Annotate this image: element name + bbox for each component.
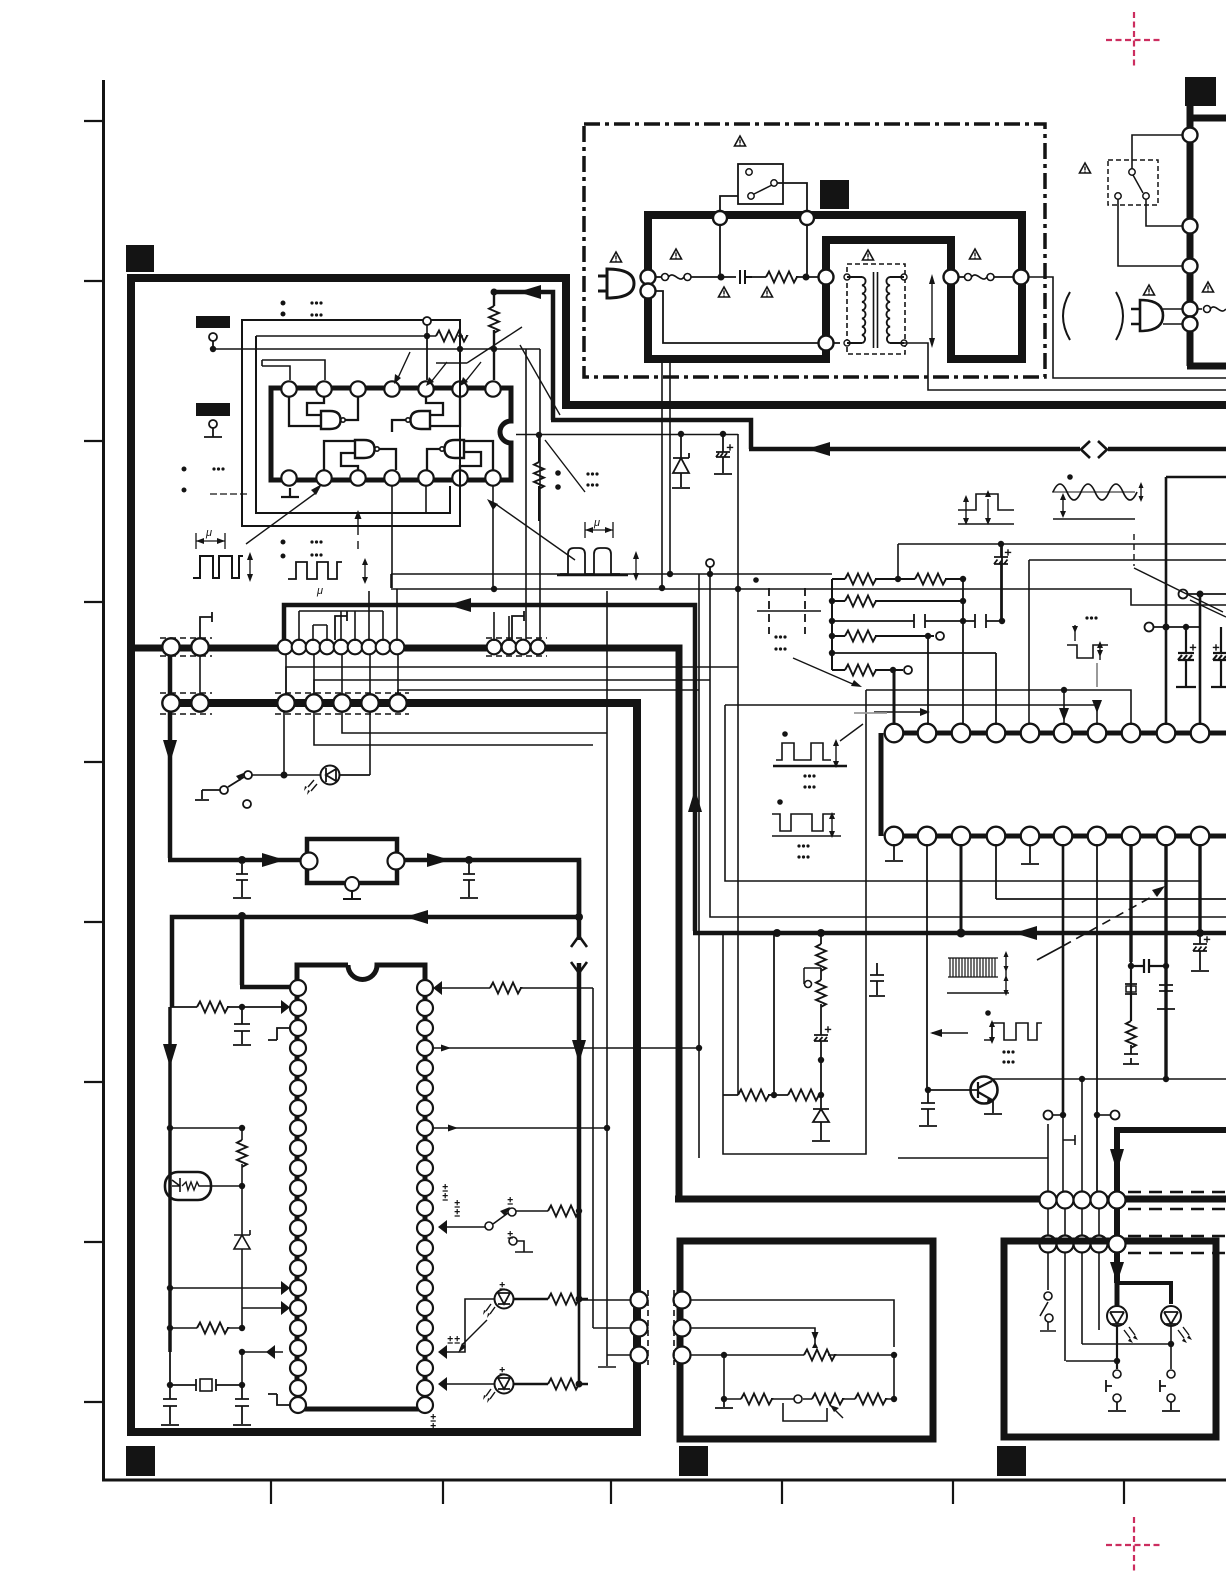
test point TP2 black bar label xyxy=(196,403,230,416)
transformer T1 dashed box xyxy=(847,264,905,354)
ladder row A y579: two resistors xyxy=(832,578,963,580)
circle on cage left edge xyxy=(819,270,834,285)
pot sub-box inner xyxy=(723,690,866,1154)
thick transformer cage left xyxy=(822,240,955,363)
callout arrows into U1 top pins xyxy=(397,327,522,382)
arrow left thin y1033 xyxy=(932,1032,968,1034)
electrolytic cap C2 xyxy=(714,434,732,474)
zener below xyxy=(234,1186,250,1260)
arrowhead R5 y449 left at 813 xyxy=(807,442,830,456)
frame top edge wire y705 into pin xyxy=(725,705,1097,725)
test point TP2 with ground xyxy=(209,420,217,428)
dashed mate lines right xyxy=(1128,1192,1226,1253)
gray callout stub xyxy=(1096,663,1098,687)
IC2 bottom pin down-wires xyxy=(960,844,963,931)
wire y690 into pin xyxy=(866,690,1131,725)
wire x738 long vertical xyxy=(737,434,739,1095)
ground at U1 pin8 xyxy=(281,488,299,497)
signal flag on row1 mid xyxy=(335,611,347,640)
LED callout arrow xyxy=(462,1320,487,1345)
waveform W2 xyxy=(288,562,342,579)
W3 amplitude arrow xyxy=(635,556,637,577)
connector circles at thick feed redraw xyxy=(1109,1192,1126,1253)
waveform W1 xyxy=(193,556,243,578)
Q1 emitter ground xyxy=(984,1100,1002,1114)
dots mid left xyxy=(182,467,187,493)
cap x1166 to ground xyxy=(1157,966,1175,1009)
electrolytic below bus at x1200 xyxy=(1191,933,1209,971)
wires LED/switch to row2 xyxy=(284,712,370,775)
MCU left pins xyxy=(290,980,306,1413)
stub terminal y627 xyxy=(1145,623,1154,632)
thick transformer cage right xyxy=(947,236,1026,359)
coupler parentheses xyxy=(1063,292,1123,340)
harness verticals between rows xyxy=(171,655,398,694)
wire route R4: arrow line y605/x695/y933 xyxy=(284,605,1226,933)
circle secondary right xyxy=(944,270,959,285)
resistor above IR out xyxy=(241,1128,243,1186)
wire thick bottom edge of box A + right edge + connector row2 bus xyxy=(127,703,641,1432)
IC2 bottom pins xyxy=(885,827,1210,846)
primary winding coil xyxy=(847,277,866,343)
gate U1D (faces left) xyxy=(445,440,465,458)
secondary voltage arrow xyxy=(931,282,933,340)
section marker square A1 xyxy=(126,245,154,272)
push button SW2 xyxy=(1113,1370,1121,1378)
LED cathode wires to buttons xyxy=(1116,1326,1118,1369)
thin box B1 around U1 xyxy=(242,320,460,526)
junction dots on y933 xyxy=(773,929,1204,938)
callout slant lines right of U1 xyxy=(520,345,585,492)
sine waveform xyxy=(1052,491,1135,493)
wire MCU left rail x170 lower xyxy=(168,1007,172,1352)
delay line DL1 box xyxy=(307,839,397,883)
LED D4 xyxy=(1161,1306,1181,1326)
LED feed thick tee xyxy=(1117,1283,1171,1304)
section marker square top right xyxy=(1185,77,1216,106)
resistor R3 right of U1 xyxy=(538,435,540,521)
resistor row y1095 xyxy=(723,1094,821,1096)
relay contacts xyxy=(746,169,752,175)
page border left line xyxy=(102,80,105,1480)
W3 mu dimension xyxy=(585,522,613,538)
wire x1200 xyxy=(1199,594,1202,725)
resistor below xyxy=(1126,1021,1136,1048)
power secondary feed wires down xyxy=(662,363,670,588)
wire delay-line bus y860 from x170 xyxy=(168,645,579,1300)
electrolytic below pot xyxy=(814,1004,828,1095)
circle secondary out xyxy=(1014,270,1029,285)
stub circle on y574 xyxy=(706,559,714,567)
wire fuse to junction xyxy=(691,276,736,278)
appliance coupler symbol xyxy=(1131,300,1163,331)
crystal filter chain x1131 xyxy=(1131,959,1166,1021)
bottom-right box interior: service switch xyxy=(1040,1302,1056,1331)
capacitor series xyxy=(740,270,752,284)
transformer core lines xyxy=(874,272,878,348)
section marker square bottom right xyxy=(997,1446,1026,1476)
callout arrow W2 up xyxy=(357,517,359,535)
wiper jog U xyxy=(783,1403,827,1421)
trim pot vertical xyxy=(816,980,826,1007)
LED D1 indicator xyxy=(321,766,340,785)
Q1 base wire from x928 xyxy=(928,1089,978,1091)
waveform W5 xyxy=(772,814,835,831)
U1 harness left wires xyxy=(262,360,325,380)
cluster2 risers xyxy=(494,612,509,641)
signal flag on row1 right cluster xyxy=(512,611,524,640)
ground flag near pin xyxy=(268,1394,290,1405)
IC2 jungle body xyxy=(881,733,1226,836)
pin up-wires xyxy=(928,544,1002,725)
cluster1 risers to U1 area xyxy=(299,589,397,641)
ladder row B y601 xyxy=(832,600,963,602)
IR receiver module xyxy=(165,1172,211,1200)
ground flag pin3 xyxy=(268,1028,290,1040)
strip bottom edge xyxy=(1187,363,1226,370)
connector P1 row1 cluster of 4 xyxy=(487,640,546,655)
W2 amplitude arrow xyxy=(364,562,366,580)
thick right edge of primary loop xyxy=(1018,215,1026,363)
long vertical x607 xyxy=(606,591,608,1355)
connector P1 row1 circles left pair xyxy=(162,638,208,655)
transformer winding terminals xyxy=(844,274,907,346)
wire connector row1 bus + down + bottom rail y1199 xyxy=(131,648,1226,1199)
registration cross bottom right xyxy=(1106,1517,1162,1573)
ladder row D y636 xyxy=(832,635,934,637)
right power strip thick bus xyxy=(1187,106,1194,366)
resistor ladder left bus xyxy=(831,579,833,670)
arrowhead R4 y933 left at 1019 xyxy=(1014,926,1037,940)
dots lower xyxy=(281,540,286,559)
electrolytic inline on riser x1001 xyxy=(994,544,1008,621)
gate U1B wiring xyxy=(392,397,460,432)
dots and ellipsis marks top xyxy=(281,301,286,317)
thick primary loop bottom-left bar xyxy=(644,355,830,363)
relay box xyxy=(738,164,783,204)
power section dash-dot isolation border xyxy=(584,124,1045,377)
gate U1C wiring xyxy=(324,441,396,470)
wire switch to LED xyxy=(252,774,322,776)
pot circuit riser x774 xyxy=(773,933,775,1095)
LED2 circuit xyxy=(495,1375,514,1394)
waveform W7 xyxy=(984,1023,1042,1040)
gate U1A wiring xyxy=(289,397,358,426)
waveform W3 xyxy=(560,548,620,574)
crystal X1 xyxy=(170,1352,242,1391)
secondary winding coil xyxy=(886,277,904,343)
arrowhead R4 up at 695,805 xyxy=(688,789,702,812)
wire row y336 resistor R2 xyxy=(256,321,463,336)
wire y1115 stubs xyxy=(1044,1111,1053,1120)
border tick marks left xyxy=(84,121,103,1402)
IC2 top pins xyxy=(885,724,1210,743)
wire x427 to pin xyxy=(426,336,428,380)
MCU IC3 body xyxy=(297,965,425,1409)
bottom-left box outline xyxy=(680,1241,933,1439)
stub terminal y594 xyxy=(1179,590,1188,599)
ground at pin 1030 xyxy=(1021,844,1039,864)
waveform W4 xyxy=(776,743,831,760)
burst waveform xyxy=(948,958,998,977)
mid thin vertical + y917 wire xyxy=(710,567,1226,917)
flag on x1063 xyxy=(1063,1135,1075,1145)
gate U1C xyxy=(355,440,375,458)
junction dot xyxy=(803,274,810,281)
callout arrow W1 to U1 pin xyxy=(246,492,317,544)
long wire y588 xyxy=(391,574,1226,605)
svg-text:μ: μ xyxy=(593,517,600,529)
ladder row C y621 with caps xyxy=(832,614,1002,628)
svg-text:μ: μ xyxy=(316,585,323,597)
wires inside bottom-left box xyxy=(690,1300,894,1399)
long wire y544 from ladder xyxy=(898,544,1226,580)
electrolytic C3 xyxy=(1176,627,1196,687)
callout arrow W3 to U1 pin xyxy=(497,505,575,560)
connector row A circles xyxy=(1040,1192,1126,1209)
wire pin to right y1048 xyxy=(433,1047,699,1049)
power switch S1 xyxy=(195,777,244,800)
arrowhead down x170 at 1060 xyxy=(163,1044,177,1067)
trim pot horizontal xyxy=(804,1350,835,1361)
gate U1D wiring xyxy=(427,441,493,470)
W1 amplitude arrow xyxy=(249,556,251,578)
gate U1B (faces left) xyxy=(411,411,431,429)
relay bus circles xyxy=(713,211,727,225)
break chevrons on y449 xyxy=(1081,441,1107,458)
thick primary loop top bar xyxy=(644,211,1026,219)
wires to connector bottom-left xyxy=(579,1300,630,1355)
dots right of U1 xyxy=(555,470,561,490)
row1 dashed mating rects xyxy=(160,638,547,656)
Q1 collector wire right xyxy=(992,1078,1226,1080)
ladder row F y670 xyxy=(832,669,903,671)
svg-text:μ: μ xyxy=(205,527,212,539)
arrowhead into bottom right box xyxy=(1110,1262,1124,1283)
nc contact with ground xyxy=(509,1237,517,1245)
connector P2 row2 cluster of 5 xyxy=(277,694,406,711)
crystal symbol xyxy=(1125,984,1137,994)
resistor row2 left xyxy=(170,1308,242,1328)
section marker square bottom mid xyxy=(679,1446,708,1476)
DL1 terminals xyxy=(301,853,318,870)
warning triangles power xyxy=(611,252,622,262)
thin box B2 inner xyxy=(256,336,450,513)
wire pin right y1128 xyxy=(433,1127,607,1129)
strip top edge xyxy=(1187,115,1226,122)
DL1 center ground xyxy=(343,891,361,899)
arrowhead left on y916 at 410 xyxy=(405,910,428,924)
interlock switch dashed box xyxy=(1108,160,1158,205)
wires into MCU pins from left rail xyxy=(170,1260,283,1308)
arrowhead down x170 at 757 xyxy=(163,740,177,763)
wire thick top edge bottom-right area y1130 + down x1117 xyxy=(1117,1130,1226,1283)
W1 mu dimension xyxy=(196,533,225,549)
arrowhead right on y860 at 272 xyxy=(262,853,285,867)
floating dot xyxy=(753,577,759,583)
wires below row B xyxy=(1048,1252,1099,1361)
arrowhead down x1117 at 1165 xyxy=(1110,1149,1124,1172)
arrowhead R4 left at 476,605 xyxy=(448,598,471,612)
dashed callout arrow to y890 area xyxy=(1037,946,1063,960)
chevron break on x579 at 937/966 xyxy=(572,940,586,963)
resistor series xyxy=(766,272,797,283)
W4 callout gray xyxy=(854,712,887,714)
row2 dropper wires to the right xyxy=(314,712,607,745)
verticals between rows xyxy=(1048,1209,1099,1236)
secondary bottom wire down and right rail y390 xyxy=(904,343,1226,390)
service switch on pin y1226 xyxy=(446,1211,580,1227)
warning triangles right strip xyxy=(1080,163,1091,173)
connector P2 row2 circles left pair xyxy=(162,694,208,711)
connector row B circles xyxy=(1040,1236,1126,1253)
coupler wires to bus xyxy=(1163,309,1182,324)
junction dot xyxy=(718,274,725,281)
wire tp1 row y349 xyxy=(213,349,540,641)
section marker square bottom left xyxy=(126,1446,155,1476)
arrowhead R5 left at 523,292 xyxy=(518,285,541,299)
cap C at x242 xyxy=(233,864,251,898)
ground bracket row3 xyxy=(598,1355,616,1367)
wire route R5: from power, arrow y292, x553, y420, x751, y449 rail xyxy=(494,292,1226,449)
gate U1A xyxy=(321,411,341,429)
switch wiring xyxy=(1118,135,1182,266)
connector col pair into bottom-left box xyxy=(631,1292,691,1364)
wire MCU feed y916 + x172 down + x242 down to pin1 xyxy=(172,860,579,1007)
electrolytic C4 xyxy=(1211,627,1226,687)
LED bus vertical xyxy=(578,1299,581,1384)
bottom-right box outline xyxy=(1004,1241,1216,1437)
registration cross top right xyxy=(1106,12,1162,68)
callout slant to frame corner xyxy=(774,635,786,638)
arrow down x1097 xyxy=(1092,700,1102,713)
resistor R1 vertical top feed xyxy=(493,294,495,380)
circle on cage left edge lower xyxy=(819,336,834,351)
wire y434 from R3 xyxy=(516,434,738,436)
waveform W6 step down xyxy=(1067,645,1108,658)
slant callout dashes right xyxy=(1134,568,1226,617)
arrowhead down x579 at 1056 xyxy=(572,1040,586,1063)
border tick marks bottom xyxy=(271,1480,1124,1504)
LED1 circuit xyxy=(495,1290,514,1309)
fuse F1 xyxy=(656,276,662,278)
trimmer adjust dashed symbol xyxy=(769,588,805,634)
connector columns down to rows xyxy=(1048,1079,1082,1192)
dashed mate box between columns xyxy=(648,1290,674,1365)
connector pin circles at plug xyxy=(641,270,656,285)
lower row: ground, resistor, circle, pot, resistor xyxy=(724,1355,894,1399)
wire crystal to pin xyxy=(242,1352,283,1385)
lower primary return wire xyxy=(655,291,840,343)
long wire y574 xyxy=(391,573,832,575)
bus connector circles xyxy=(1183,128,1198,332)
push button SW3 xyxy=(1167,1370,1175,1378)
row2 dashed mating rects xyxy=(160,693,409,714)
fuse on right edge xyxy=(1198,308,1202,310)
wire main thick route R1: box A left+top, to y405 rail xyxy=(131,278,1226,1436)
cap at x928 to ground xyxy=(919,1090,937,1126)
U1 bottom pin circles xyxy=(281,470,500,485)
U1 top pin circles xyxy=(281,381,500,396)
MCU right side: reset resistor top xyxy=(441,988,593,1328)
zener diode D2 xyxy=(672,434,690,488)
connector P1 row1 cluster of 9 xyxy=(278,640,405,655)
frame box F xyxy=(725,705,1200,881)
LED D3 xyxy=(1107,1306,1127,1326)
pm marks near MCU pins xyxy=(443,1184,448,1191)
reset RC network xyxy=(170,1006,283,1008)
resistor above pot xyxy=(820,933,822,980)
page border bottom line xyxy=(102,1479,1226,1482)
relay wires to bus circles xyxy=(720,183,807,274)
diode to ground xyxy=(812,1095,830,1141)
secondary out wire to right xyxy=(1028,277,1226,378)
signal flag on row1 left xyxy=(200,612,212,638)
arrow right y712 xyxy=(874,711,922,713)
ladder row E y653 xyxy=(832,652,996,654)
wire x1166 long xyxy=(1165,477,1168,725)
U1 pin harness down-wires xyxy=(392,486,493,589)
junction dots y916 xyxy=(238,912,583,921)
IC U1 quad NAND body xyxy=(271,388,511,480)
transistor Q1 xyxy=(971,1077,998,1104)
junction dots y860 xyxy=(238,856,473,864)
test point TP1 black bar label xyxy=(196,316,230,328)
cap C at x469 xyxy=(460,864,478,898)
IC2 pin1 feed thick xyxy=(893,671,896,725)
test point TP1 xyxy=(209,333,217,341)
row2 riser wires to the right xyxy=(286,667,738,695)
cap on box edge xyxy=(869,963,885,996)
thick primary loop left edge xyxy=(644,211,652,359)
switch contacts xyxy=(1115,169,1149,199)
arrowhead right on y860 at 437 xyxy=(427,853,450,867)
fuse F2 secondary xyxy=(958,276,965,278)
long wire y560 from pin riser xyxy=(1029,560,1226,725)
crystal caps xyxy=(161,1385,179,1425)
AC plug symbol xyxy=(598,269,634,298)
box corner top right xyxy=(1166,476,1226,479)
step waveform xyxy=(958,494,1014,510)
section marker square power xyxy=(820,180,849,209)
MCU right pins xyxy=(417,980,433,1413)
